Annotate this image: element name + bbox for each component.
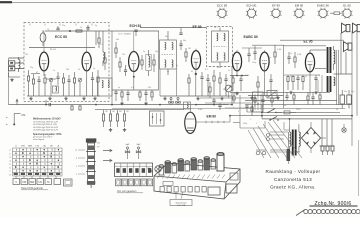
svg-text:1k: 1k [305,76,307,78]
wire [270,119,299,152]
svg-text:EF 89: EF 89 [272,4,280,8]
tone switch box [253,92,264,112]
svg-text:EM 80: EM 80 [207,115,217,119]
mains cord [322,119,332,146]
ground [250,96,253,99]
svg-text:0,2M: 0,2M [297,54,302,56]
label EF 89 [193,25,202,29]
svg-text:150p: 150p [252,62,256,64]
svg-text:47: 47 [36,72,38,74]
svg-text:220V: 220V [296,109,301,111]
FM stub [13,113,25,125]
svg-text:1n: 1n [143,51,145,53]
svg-text:100p: 100p [243,123,247,125]
capacitor [67,75,70,96]
svg-text:460: 460 [165,36,168,38]
capacitor [224,74,227,96]
tube V3 EF89 [191,49,200,71]
svg-text:1M: 1M [223,89,226,91]
svg-text:2M: 2M [105,111,108,113]
tube V1b ECC85 [82,50,91,72]
svg-text:9: 9 [256,123,257,125]
capacitor [245,105,248,112]
svg-text:Meßinstrumente: 20 kΩ/V: Meßinstrumente: 20 kΩ/V [33,118,61,121]
decoupling resistor [292,75,294,90]
svg-text:1: 1 [233,107,234,109]
svg-text:12: 12 [75,150,77,152]
wire [270,150,300,152]
svg-text:Canzonetta 513: Canzonetta 513 [274,177,312,182]
trimmer capacitor icon [136,144,141,159]
svg-text:EF 89: EF 89 [193,25,202,29]
small trimmer tube [40,30,46,46]
wire [231,66,233,105]
mains rail 1 [230,115,352,117]
svg-text:4pF: 4pF [126,144,130,146]
svg-text:6,3V 0,3A: 6,3V 0,3A [177,204,186,207]
resistor [98,31,100,48]
resistor [76,30,82,32]
speaker leads [341,31,357,146]
capacitor [179,28,182,35]
push-button key boxes [13,179,61,185]
label ECC 85 [55,35,67,39]
ground [82,97,85,100]
svg-text:0,8: 0,8 [97,147,100,149]
grid column headers [15,145,59,148]
speaker LS1 [342,23,350,33]
trimmer [78,78,82,96]
resistor [251,105,253,116]
resistor [294,52,296,68]
svg-text:2: 2 [250,119,251,121]
capacitor [86,25,89,31]
wire [200,98,253,108]
ground [109,128,112,131]
svg-text:62: 62 [191,71,193,73]
antenna tap arrow [103,149,112,152]
svg-text:40p: 40p [183,40,186,42]
svg-text:3: 3 [9,157,11,159]
tube socket bottom view EM 80 [294,4,305,19]
decoupling capacitor [314,75,317,90]
AM filter box [184,102,191,109]
ground [48,97,51,100]
resistor [32,74,34,96]
aux key box [64,179,73,186]
ground [10,78,13,81]
ground [144,102,147,105]
power transformer core [292,130,297,156]
wire [96,31,103,47]
svg-text:U: U [15,146,17,148]
svg-text:10k: 10k [231,76,234,78]
negative feedback wire [240,121,265,128]
ground [289,91,292,94]
svg-text:50µ: 50µ [344,91,348,93]
svg-text:2: 2 [9,153,11,155]
svg-text:0,5M: 0,5M [198,109,203,111]
ground [163,97,166,100]
svg-text:30k: 30k [66,69,69,71]
svg-text:Von vorn gesehen: Von vorn gesehen [117,190,137,193]
capacitor on AM bus [46,100,51,106]
wire [133,72,135,90]
resistor [44,74,46,96]
wire [233,95,240,128]
capacitor [179,40,182,50]
svg-text:Taste UKW gedrückt: Taste UKW gedrückt [21,187,43,190]
output transformer core [327,47,332,92]
svg-text:8: 8 [76,158,77,160]
resistor [115,42,117,58]
svg-text:1n: 1n [53,70,55,72]
capacitor [124,65,127,76]
svg-text:0,5M: 0,5M [245,75,250,77]
resistor [141,55,143,70]
svg-text:8n: 8n [237,93,239,95]
speaker LS2 [353,23,360,33]
svg-text:UK: UK [50,146,54,148]
svg-text:TA: TA [47,181,50,184]
pilot lamp [342,124,346,132]
svg-text:3M: 3M [119,111,122,113]
svg-text:4: 4 [9,160,11,162]
drawing number underline [310,205,358,207]
tiny pin numbers [233,107,257,125]
svg-text:70: 70 [290,76,292,78]
capacitor [285,92,288,100]
ground [123,128,126,131]
band switch box [150,111,165,126]
selenium bridge rectifier [299,122,326,153]
svg-text:1k: 1k [80,27,82,29]
wire [44,71,87,96]
wire [9,58,21,105]
svg-text:4: 4 [238,111,239,113]
svg-text:5n: 5n [228,70,230,72]
dipole arrow [16,99,18,104]
IF transformer can I [160,40,177,69]
svg-text:LW: LW [38,181,42,184]
resistor [307,92,309,104]
svg-text:0,1: 0,1 [100,44,103,46]
capacitor [287,52,290,64]
ground [29,97,32,100]
tone pot [267,91,277,99]
mains rail 3 [262,111,340,113]
svg-text:KW: KW [21,146,25,148]
svg-text:240: 240 [97,143,100,145]
mains switch [267,109,282,114]
svg-text:ECC 85: ECC 85 [55,35,67,39]
svg-text:ECH 81: ECH 81 [246,4,257,8]
wire grid rail [29,47,95,49]
volume potentiometer [225,85,232,98]
junction [133,76,135,78]
AF coupling chain [196,104,233,106]
resistor [139,90,141,101]
tube socket bottom view EABC 80 [317,4,329,19]
grid bus [112,89,159,91]
wire [31,74,56,80]
tube socket bottom view ECC 85 [217,4,228,19]
trimmer pair [169,97,181,105]
antenna terminal block [9,58,24,71]
resistor [121,90,123,101]
ground [235,92,238,95]
rod labels [97,143,100,149]
ground [64,97,67,100]
capacitor [134,30,137,36]
resistor [151,90,153,101]
binding scallops [296,210,360,216]
wire [44,31,87,52]
resistor [188,74,190,96]
stage bus right [158,31,160,90]
antenna tap arrow [103,159,112,162]
electrolytic cap [347,90,352,109]
svg-text:5p: 5p [95,25,97,27]
svg-text:300: 300 [148,87,151,89]
capacitor [37,76,40,96]
svg-text:40: 40 [284,105,286,107]
svg-text:0,1: 0,1 [131,87,134,89]
border top rule [0,1,360,3]
label EM 80 [207,115,217,119]
trimmer capacitor icon [125,144,130,159]
svg-text:KW: KW [22,181,27,184]
svg-text:10,7: 10,7 [214,27,218,29]
svg-text:240: 240 [25,54,28,56]
ratio detector transformer [212,31,229,62]
junction [69,30,71,32]
svg-text:EABC 80: EABC 80 [244,35,258,39]
svg-text:MW: MW [28,146,33,148]
svg-text:1: 1 [9,150,11,152]
wire [95,109,184,111]
label ECH 81 [130,24,142,28]
svg-text:5: 5 [9,164,11,166]
voltage table text [33,118,61,142]
svg-text:88-100: 88-100 [50,49,56,51]
wire [247,111,253,113]
diode bus [230,75,248,77]
svg-text:Graetz KG, Altena.: Graetz KG, Altena. [270,185,316,190]
chassis rear perspective drawing [154,152,240,206]
svg-text:MW: MW [30,181,35,184]
resistor [97,70,99,96]
switch contact [269,117,279,121]
svg-text:EL 95: EL 95 [343,4,351,8]
svg-text:LW: LW [36,146,40,148]
svg-text:20k: 20k [155,51,158,53]
top cap lead [58,25,88,31]
svg-text:6p: 6p [176,65,178,67]
speaker LS3 [344,42,352,52]
wire [309,72,311,96]
B+ row rail [284,74,320,76]
grid row numbers [9,150,11,177]
tube socket bottom view EF 89 [271,4,282,19]
ferrite antenna rod [75,138,96,188]
tiny note [118,33,131,35]
osc coil box [146,50,151,76]
title line 2 [274,177,312,182]
bandfilter box [53,86,59,93]
tube V1a ECC85 [39,50,48,72]
svg-text:0,1: 0,1 [265,96,268,98]
svg-text:ohne Signal: ohne Signal [33,139,45,141]
svg-text:70: 70 [47,29,49,31]
svg-text:Ua 250V Ug2 250V Uk 6,2V: Ua 250V Ug2 250V Uk 6,2V [33,129,59,131]
svg-text:0,1: 0,1 [205,69,208,71]
svg-text:A: A [58,145,60,148]
ground [314,91,317,94]
mains rail 2 [262,118,352,120]
resistor [109,110,111,127]
svg-text:6: 6 [9,167,11,169]
svg-text:5n: 5n [318,75,320,77]
title line 1 [265,169,320,174]
resistor [213,70,215,96]
oscillator coil [103,47,105,66]
capacitor [212,98,215,105]
capacitor [200,72,203,96]
trimmer [49,78,53,96]
wire plate rail [280,40,344,46]
push-button contact grid [13,148,63,176]
svg-text:12p: 12p [62,25,65,27]
fuse [284,111,296,114]
wire ground bus [27,95,100,97]
drawing number [315,201,352,207]
svg-text:Raumklang - Vollsuper: Raumklang - Vollsuper [265,169,320,174]
wire [310,50,326,69]
svg-text:U: U [15,181,17,184]
svg-text:0,3M: 0,3M [277,49,282,51]
stage bus left [111,31,113,105]
IF can 10.7 MHz [98,78,113,96]
wire AM bus [9,104,229,106]
decoupling capacitor [296,75,299,90]
resistor [116,110,118,127]
hatched coil [287,145,291,164]
resistor [232,76,234,92]
ground [93,97,96,100]
ratio detector shield dashed box [207,27,233,67]
svg-text:50µ: 50µ [351,91,355,93]
tube socket bottom view EL 95 [342,4,353,19]
capacitor [218,103,221,110]
resistor [73,72,75,96]
dial lamp pair [256,150,266,155]
IF ground bus [160,95,232,97]
resistor on AM bus [71,105,81,110]
resistor [123,110,125,127]
svg-text:50: 50 [336,109,338,111]
resistor [209,82,211,98]
capacitor [269,74,272,96]
capacitor [56,72,59,85]
junction [195,73,197,75]
wire [167,31,169,75]
chassis wiring fan [248,120,302,158]
wire plate rail [45,30,109,32]
svg-text:5n: 5n [290,53,292,55]
resistor [271,96,273,108]
component value labels [25,25,355,125]
svg-text:50: 50 [274,98,276,100]
wire [219,28,221,69]
wire [318,75,322,92]
resistor [219,72,221,96]
wire [133,31,135,52]
svg-text:1M: 1M [112,111,115,113]
ground [220,97,223,100]
wire [196,116,230,124]
tube V4a EABC80 diodes [232,50,241,72]
decoupling resistor [302,75,304,90]
wire [242,45,284,48]
svg-text:5: 5 [76,166,77,168]
decoupling resistor [287,75,289,90]
resistor [233,92,235,103]
wire [334,50,353,105]
svg-text:1m Tr. 460kHz: 1m Tr. 460kHz [118,33,131,35]
AM line junctions [45,104,197,106]
svg-text:50k: 50k [116,39,119,41]
power transformer secondary [299,127,300,152]
resistor [153,54,155,72]
svg-text:FM: FM [22,113,26,117]
power transformer primary [288,127,291,152]
chassis pointer arrow [148,168,153,172]
capacitor [126,90,129,101]
svg-text:1M: 1M [188,48,191,50]
svg-text:8: 8 [9,174,11,176]
wire [140,27,206,29]
dial string marks [30,24,92,26]
push-button switch unit [115,163,153,186]
tube V5 EL95 [305,51,314,73]
title line 3 [270,185,316,190]
svg-text:25p: 25p [30,67,33,69]
svg-text:5n: 5n [93,68,95,70]
svg-text:220: 220 [122,54,125,56]
svg-text:ECH 81: ECH 81 [130,24,142,28]
svg-text:3: 3 [76,174,77,176]
resistor [254,96,256,108]
B+ rail [230,91,330,93]
label EABC 80 [244,35,258,39]
grid contact dots [14,149,61,179]
resistor [274,45,276,64]
ground [196,97,199,100]
wire [109,30,159,32]
resistor [62,73,64,96]
label EL 95 [304,40,313,44]
capacitor [206,74,209,96]
capacitor [311,92,314,104]
ground [120,102,123,105]
coupling caps [247,46,256,62]
svg-text:1M: 1M [126,111,129,113]
capacitor [261,96,264,108]
capacitor [114,90,117,101]
FM tuner shield dashed box [24,22,109,101]
svg-text:8pF: 8pF [137,144,141,146]
